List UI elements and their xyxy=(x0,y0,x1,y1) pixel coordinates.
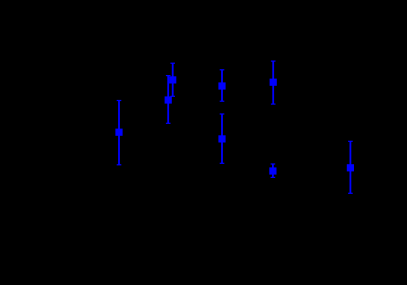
data point 8 errorbar xyxy=(347,141,354,193)
data point 7 errorbar xyxy=(269,164,276,177)
data point 2 errorbar xyxy=(169,63,176,96)
data point 6 errorbar xyxy=(270,61,277,104)
data point 3 errorbar xyxy=(165,76,172,124)
data point 1 errorbar xyxy=(115,101,122,165)
data point 4 errorbar xyxy=(218,70,225,101)
data point 5 errorbar xyxy=(218,114,225,163)
